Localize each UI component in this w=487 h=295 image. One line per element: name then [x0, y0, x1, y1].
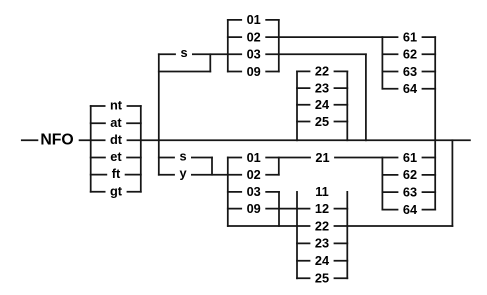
wire upper 22-25 bracket R — [346, 71, 348, 140]
wire lower 01/21/61 row — [228, 157, 435, 159]
wire lower 23 row — [297, 242, 347, 244]
wire upper 25 row — [297, 121, 347, 123]
label s lower — [175, 148, 191, 164]
label 22 lower — [310, 218, 333, 233]
wire lower 11-25 bracket R — [346, 192, 348, 278]
wire top 61-64 bracket L — [381, 37, 383, 89]
wire main line — [22, 139, 470, 141]
label gt — [106, 183, 127, 198]
wire right drop — [451, 140, 453, 226]
wire lower stack bracket R — [278, 158, 280, 175]
svg-text:03: 03 — [247, 47, 261, 62]
svg-text:63: 63 — [403, 184, 417, 199]
wire lower 11-25 bracket L — [296, 192, 298, 278]
wire lower 09/12 row — [228, 208, 347, 210]
wire top stack bracket R — [278, 20, 280, 72]
wire lower stack bracket L — [227, 158, 229, 227]
svg-text:64: 64 — [403, 81, 418, 96]
wire s riser — [158, 54, 160, 174]
label 61 top — [398, 29, 421, 44]
label at — [106, 115, 126, 130]
wire lower 62 row — [382, 174, 435, 176]
wire lower 22 long row — [228, 225, 453, 227]
svg-text:11: 11 — [315, 184, 328, 199]
label 64 lower — [398, 202, 421, 217]
wire upper 22-25 bracket L — [296, 71, 298, 140]
svg-text:y: y — [179, 166, 187, 181]
label 62 top — [398, 47, 421, 62]
label 02 top — [242, 29, 265, 44]
label dt — [106, 132, 127, 147]
svg-text:et: et — [110, 149, 122, 164]
svg-text:24: 24 — [315, 97, 330, 112]
wire gt row — [91, 191, 141, 193]
wire top stack bracket L — [227, 20, 229, 72]
svg-text:22: 22 — [315, 218, 329, 233]
label 23 upper — [310, 80, 333, 95]
svg-text:09: 09 — [247, 201, 261, 216]
svg-text:25: 25 — [315, 271, 329, 286]
wire 09 top row — [228, 71, 279, 73]
wire upper 24 row — [297, 104, 347, 106]
label 64 top — [398, 81, 421, 96]
label 63 top — [398, 64, 421, 79]
label 21 — [311, 150, 334, 165]
wire y/02 lower row — [159, 174, 279, 176]
wire et row — [91, 157, 141, 159]
wire s-loop right side — [209, 54, 211, 71]
svg-text:64: 64 — [403, 202, 418, 217]
wire 64 top row — [382, 88, 435, 90]
wire upper 22 row — [297, 70, 347, 72]
wire lower s row — [159, 157, 212, 159]
svg-text:61: 61 — [403, 150, 417, 165]
label y lower — [175, 166, 191, 182]
label 63 lower — [398, 184, 421, 199]
wire 63 top row — [382, 71, 435, 73]
wire left stack bracket R — [140, 106, 142, 192]
wire lower 25 row — [297, 277, 347, 279]
label 12 — [310, 201, 333, 216]
wire 61-64 bracket R long — [434, 37, 436, 210]
label s top — [176, 45, 192, 61]
label 09 top — [242, 64, 265, 79]
label NFO — [38, 132, 78, 149]
svg-text:62: 62 — [403, 47, 417, 62]
label 22 upper — [310, 64, 333, 79]
label ft — [107, 166, 125, 181]
svg-text:61: 61 — [403, 29, 417, 44]
svg-text:01: 01 — [247, 12, 261, 27]
svg-text:24: 24 — [315, 253, 330, 268]
wire left stack bracket L — [90, 106, 92, 192]
wire 01 top row — [228, 19, 279, 21]
svg-text:25: 25 — [315, 114, 329, 129]
svg-text:62: 62 — [403, 167, 417, 182]
label 03 lower — [242, 184, 265, 199]
label 24 upper — [310, 97, 333, 112]
svg-text:at: at — [110, 115, 122, 130]
label 01 top — [242, 12, 265, 27]
wire at row — [91, 122, 141, 124]
label 24 lower — [310, 253, 333, 268]
svg-text:22: 22 — [315, 64, 329, 79]
label 11 — [310, 184, 333, 199]
label 62 lower — [398, 167, 421, 182]
wire lower 64 row — [382, 209, 435, 211]
wire lower 03 row — [228, 191, 279, 193]
wire upper 23 row — [297, 87, 347, 89]
wire s/y merge — [211, 158, 213, 175]
wire ft row — [91, 174, 141, 176]
label 25 upper — [310, 114, 333, 129]
label 03 top — [242, 47, 265, 62]
svg-text:23: 23 — [315, 80, 329, 95]
label 25 lower — [310, 271, 333, 286]
svg-text:12: 12 — [315, 201, 329, 216]
svg-text:s: s — [179, 148, 186, 163]
wire top s/03 row — [159, 53, 366, 55]
svg-text:01: 01 — [247, 150, 261, 165]
svg-text:09: 09 — [247, 64, 261, 79]
wire lower 03 exit drop — [278, 192, 280, 226]
svg-text:23: 23 — [315, 236, 329, 251]
svg-text:ft: ft — [112, 166, 121, 181]
svg-text:nt: nt — [110, 98, 123, 113]
svg-text:dt: dt — [110, 132, 123, 147]
svg-text:21: 21 — [315, 150, 329, 165]
label nt — [106, 98, 127, 113]
wire lower 63 row — [382, 191, 435, 193]
svg-text:02: 02 — [247, 167, 261, 182]
svg-text:03: 03 — [247, 184, 261, 199]
label 01 lower — [242, 150, 265, 165]
svg-text:s: s — [180, 45, 187, 60]
label 23 lower — [310, 236, 333, 251]
wire nt row — [91, 105, 141, 107]
wire 02/61 top row — [228, 36, 435, 38]
wire s-loop bottom — [159, 71, 211, 73]
wire 03 exit drop — [365, 54, 367, 140]
wire lower 61-64 bracket L — [381, 158, 383, 210]
label 09 lower — [242, 201, 265, 216]
wire lower 24 row — [297, 260, 347, 262]
label et — [106, 149, 126, 164]
wire 62 top row — [382, 53, 435, 55]
svg-text:63: 63 — [403, 64, 417, 79]
label 02 lower — [242, 167, 265, 182]
svg-text:NFO: NFO — [40, 132, 73, 149]
label 61 lower — [398, 150, 421, 165]
svg-text:02: 02 — [247, 29, 261, 44]
svg-text:gt: gt — [110, 183, 123, 198]
